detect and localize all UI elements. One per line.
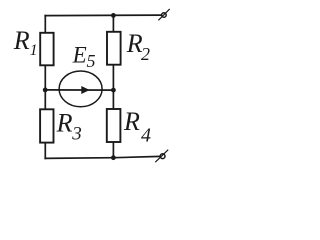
svg-text:R: R — [56, 109, 73, 138]
wire left rail upper — [44, 16, 46, 33]
resistor R3 — [40, 109, 53, 142]
svg-text:5: 5 — [87, 51, 96, 71]
wire top horizontal — [45, 14, 161, 17]
resistor R2 — [107, 32, 121, 65]
wire left rail middle — [44, 65, 46, 109]
svg-text:E: E — [72, 42, 87, 67]
junction node right middle — [111, 88, 116, 93]
terminal top right — [158, 9, 169, 20]
wire middle horizontal — [45, 89, 113, 91]
source E5 circle — [59, 71, 102, 107]
wire right rail upper — [112, 15, 114, 32]
junction node right top — [111, 13, 116, 18]
wire bottom horizontal — [45, 156, 160, 158]
svg-text:2: 2 — [141, 44, 150, 64]
label R3 — [56, 109, 82, 145]
label E5 — [72, 42, 96, 71]
svg-text:R: R — [13, 26, 30, 55]
junction node left middle — [43, 88, 48, 93]
svg-text:1: 1 — [30, 42, 38, 59]
wire right rail middle — [112, 65, 114, 109]
label R2 — [126, 29, 150, 64]
svg-text:R: R — [123, 107, 140, 136]
svg-text:4: 4 — [141, 125, 151, 147]
label R1 — [13, 26, 38, 59]
wire left rail lower — [44, 143, 46, 159]
resistor R4 — [107, 109, 121, 142]
svg-text:3: 3 — [71, 124, 82, 145]
wire right rail lower — [112, 142, 114, 158]
junction node right bottom — [111, 155, 116, 160]
source E5 arrow — [81, 86, 89, 94]
terminal bottom right — [155, 150, 168, 163]
resistor R1 — [40, 33, 53, 66]
label R4 — [123, 107, 151, 147]
